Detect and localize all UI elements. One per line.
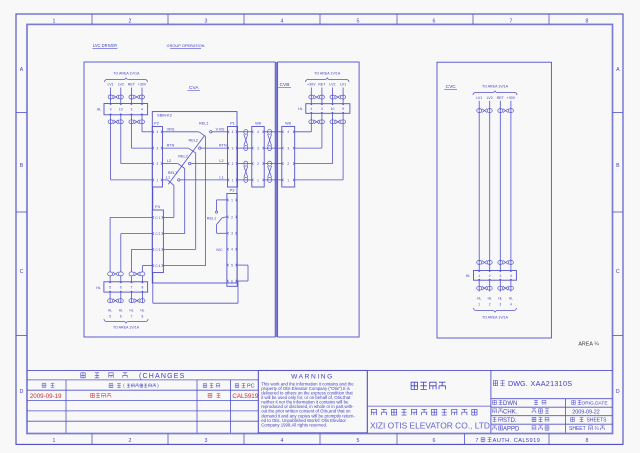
svg-text:HL: HL [119,309,123,313]
svg-text:RTN: RTN [219,144,227,148]
svg-text:HL: HL [97,107,102,111]
label CVA [188,85,201,91]
connector P3 [227,194,237,287]
svg-text:A: A [616,67,620,73]
svg-text:5: 5 [231,264,233,268]
relay contact REL2 (L2) [178,155,191,169]
svg-text:2009-09-19: 2009-09-19 [30,393,62,400]
svg-text:ORIG.DATE: ORIG.DATE [582,401,608,407]
svg-text:3: 3 [130,108,132,112]
svg-text:LV1: LV1 [476,96,482,100]
svg-text:GROUP OPERATION: GROUP OPERATION [167,43,205,48]
svg-text:2: 2 [287,162,289,166]
crossover vertical to P4.C3 [195,153,197,250]
wires P1 to W8 connector [238,131,252,133]
svg-text:1: 1 [478,274,480,278]
changes table grid [27,370,258,432]
frame row letters right [616,67,620,395]
wall between CVA and CVB [275,62,277,337]
twisted pair symbol P1-W8 lower [244,161,248,166]
svg-text:Company 1998.All rights reserv: Company 1998.All rights reserved. [261,422,327,427]
svg-text:TO AREA 1V/1A: TO AREA 1V/1A [482,315,509,319]
label GROUP OPERATION [167,43,205,49]
wire P4.C4 to strip pin8 [142,265,152,267]
svg-text:TO AREA 1V/1A: TO AREA 1V/1A [482,85,509,89]
dwg number cell [491,379,613,399]
svg-text:HL: HL [488,297,492,301]
terminal strip HL (CVB) [306,104,350,114]
title block top line [27,369,613,371]
wire LV1 to P2 pin1 [110,126,112,180]
twisted pair symbol at wall upper [268,129,272,134]
svg-text:8: 8 [586,438,589,444]
svg-text:4: 4 [232,130,234,134]
wire contact to P1.4 VRS [212,131,228,133]
svg-text:7: 7 [131,315,133,319]
svg-text:3: 3 [232,147,234,151]
svg-text:1: 1 [287,178,289,182]
svg-text:A: A [20,67,24,73]
svg-text:4: 4 [281,18,284,24]
svg-text:3: 3 [205,18,208,24]
svg-text:1: 1 [53,18,56,24]
svg-text:REL1: REL1 [199,122,209,126]
svg-text:P1: P1 [230,122,235,126]
svg-text:P4: P4 [155,205,160,209]
svg-text:8: 8 [141,285,143,289]
svg-text:VRS: VRS [167,127,175,131]
svg-text:2: 2 [489,274,491,278]
terminal labels HL5-HL8 [108,309,145,319]
svg-text:C 1: C 1 [155,216,160,220]
change record person [208,393,212,397]
brace (CVB top) [306,78,350,83]
svg-text:TO AREA 1V/1A: TO AREA 1V/1A [113,72,140,76]
svg-text:LV1: LV1 [340,83,346,87]
connector P2 [152,127,162,188]
svg-text:8: 8 [142,315,144,319]
svg-text:W8: W8 [255,122,261,126]
svg-text:1: 1 [53,438,56,444]
svg-text:CVB: CVB [280,82,290,88]
svg-text:RET: RET [318,83,326,87]
terminal labels HL1-HL4 [477,297,513,307]
crossover vertical to P4.C2 [184,169,186,234]
svg-text:AREA ¼: AREA ¼ [578,342,599,348]
svg-text:LV2: LV2 [329,83,335,87]
wire strip to W8.4 (CVB) [310,124,312,132]
svg-text:RET: RET [128,83,136,87]
twisted pair symbols above strip (CVC) [477,260,482,264]
brace (CVC top) [473,91,517,96]
svg-text:REL2: REL2 [178,155,188,159]
changes header content [109,383,159,388]
changes header date [42,383,46,387]
svg-text:3: 3 [499,274,501,278]
svg-text:DWG.: DWG. [508,379,528,388]
wire strip to W8.3 (CVB) [321,124,323,148]
title block vertical dividers [366,370,368,432]
svg-text:AUTH. CAL5919: AUTH. CAL5919 [493,438,541,444]
terminal strip HL (CVC) [474,271,517,281]
svg-text:4: 4 [141,108,143,112]
title row checked by [493,409,549,416]
wire P2 shell to P4 shell [152,187,154,210]
changes header person [203,384,207,388]
wire +30V to P2 pin4 [141,126,143,132]
wire contact to P1.1 L1 [180,179,228,181]
svg-text:C 2: C 2 [155,232,160,236]
wire P2.1 L1 to contact [163,179,168,181]
frame row ticks left [16,113,27,336]
svg-text:5: 5 [357,18,360,24]
jumper wire P3.5 to P3.6 [237,264,248,266]
wires CVA top terminals [110,88,112,104]
crossover vertical to P4.C1 [173,185,175,217]
brace (CVC bottom) [474,308,517,313]
svg-text:3: 3 [321,107,323,111]
svg-text:(CHANGES: (CHANGES [139,373,186,380]
svg-text:9: 9 [342,107,344,111]
svg-text:1: 1 [232,178,234,182]
wire P4.C2 to strip pin6 [121,233,153,235]
wires CVB top terminals [310,88,312,104]
wires below strip (CVA top) [110,115,112,126]
changes table title [81,373,186,380]
brace (CVA top) [105,78,148,83]
svg-text:6: 6 [433,18,436,24]
svg-text:3: 3 [231,232,233,236]
svg-text:TO AREA 1V/1A: TO AREA 1V/1A [113,326,140,330]
svg-text:CHK.: CHK. [503,409,518,415]
svg-text:+30V: +30V [138,83,147,87]
wire RET to P2 pin3 [130,126,132,148]
svg-text:4: 4 [510,303,512,307]
auth cell [481,438,540,444]
wire stubs below strip (CVC) [478,280,480,291]
svg-text:HL: HL [498,297,502,301]
svg-text:2: 2 [157,162,159,166]
connector P1 [228,127,238,188]
svg-text:SHEETS: SHEETS [587,418,608,424]
warning text [261,381,355,427]
wire contact to P1.3 RTN [201,147,228,149]
wire stubs into bottom strip (CVA) [109,276,111,282]
title row approved [493,426,549,433]
svg-text:CAL5919: CAL5919 [232,393,258,400]
svg-text:9: 9 [110,108,112,112]
svg-text:6: 6 [120,315,122,319]
svg-text:+30V: +30V [507,96,516,100]
twisted pair symbols above strip (CVB) [309,95,314,99]
svg-text:SBM-K2: SBM-K2 [157,113,173,118]
title row sheets [571,417,608,423]
svg-text:+30V: +30V [307,83,316,87]
svg-text:W8: W8 [285,122,291,126]
svg-text:4: 4 [157,130,159,134]
title small rows grid [491,407,613,424]
wires below strip (CVB) [310,113,312,124]
company cell divider [367,405,491,407]
twisted pair symbol at wall lower [268,161,272,166]
twisted pair symbols below strip (CVB) [309,120,314,124]
svg-text:STD.: STD. [503,418,517,424]
relay contact REL2 (RTN) [188,138,201,153]
svg-text:LV2: LV2 [118,83,124,87]
svg-text:PC: PC [247,384,255,390]
svg-text:P2: P2 [154,122,159,126]
twisted pair symbols above strip (CVA bottom) [108,272,113,276]
svg-text:2: 2 [129,18,132,24]
svg-text:4: 4 [281,438,284,444]
svg-text:C 4: C 4 [155,264,160,268]
relay contact REL1 (P3) [207,211,227,225]
wire P3.3 to REL1 pivot [217,232,227,234]
svg-text:CVA: CVA [189,85,199,91]
wire P4.C3 to strip pin7 [132,248,153,250]
svg-text:XIZI OTIS ELEVATOR CO., LTD: XIZI OTIS ELEVATOR CO., LTD [370,421,490,431]
svg-text:HL: HL [96,286,101,290]
twisted pair symbol P1-W8 upper [244,129,248,134]
box CVB controller [278,62,360,337]
svg-text:1: 1 [257,178,259,182]
label CVC [444,84,457,90]
svg-text:3: 3 [499,303,501,307]
box CVC controller [437,62,551,338]
wires W8 crossing wall to CVB [264,131,282,133]
wire contact to P1.2 L2 [191,163,228,165]
svg-text:6: 6 [433,438,436,444]
twisted pair symbols below strip (CVA) [108,120,113,124]
terminal strip HL (CVA top) [104,104,148,115]
wire P2.4 VRS to contact [163,131,199,133]
svg-text:C: C [20,269,24,275]
svg-text:HL: HL [108,309,112,313]
svg-text:RTN: RTN [167,144,175,148]
svg-text:HL: HL [509,297,513,301]
svg-text:DWN: DWN [503,401,517,407]
wire P4.C1 to strip pin5 [110,216,152,218]
svg-text:TO AREA 1V/1A: TO AREA 1V/1A [314,72,341,76]
wire stubs below bottom strip (CVA) [109,292,111,303]
svg-text:P3: P3 [230,189,235,193]
svg-text:L1: L1 [219,175,223,179]
svg-text:5: 5 [357,438,360,444]
svg-text:2: 2 [489,303,491,307]
svg-text:3: 3 [157,147,159,151]
change record description [91,393,95,397]
svg-text:REL2: REL2 [189,138,199,142]
brace (CVA bottom) [104,319,148,324]
svg-text:HL: HL [477,297,481,301]
svg-text:RET: RET [497,96,505,100]
svg-text:L2: L2 [219,159,223,163]
twisted pair symbols below strip (CVC) [477,286,482,290]
bottom bus wire [153,302,238,304]
svg-text:WARNING: WARNING [291,374,334,381]
svg-text:2: 2 [231,215,233,219]
svg-text:REL1: REL1 [207,216,217,220]
svg-text:2: 2 [257,162,259,166]
label LVC DRIVER [93,43,118,49]
svg-text:B: B [616,163,620,169]
relay contact REL1 (L1) [168,171,181,185]
svg-text:6: 6 [231,279,233,283]
frame column ticks bottom [92,434,549,445]
twisted pair symbols below strip (CVA bottom) [108,299,113,303]
svg-text:5: 5 [109,315,111,319]
svg-text:6: 6 [120,285,122,289]
svg-text:4: 4 [231,248,233,252]
svg-text:APPD: APPD [503,426,520,432]
changes header PC [235,384,254,390]
svg-text:1: 1 [231,198,233,202]
frame row ticks right [613,113,624,336]
frame column numbers bottom [53,438,589,444]
svg-text:HL: HL [140,309,144,313]
wire strip to W8.2 (CVB) [332,124,334,163]
svg-text:4: 4 [257,130,259,134]
svg-text:4: 4 [510,274,512,278]
svg-text:V RS: V RS [216,127,225,131]
svg-text:LV1: LV1 [108,83,114,87]
svg-text:L2: L2 [167,159,171,163]
svg-text:LV2: LV2 [487,96,493,100]
svg-text:7: 7 [476,438,479,444]
title row sheet number [569,426,604,432]
svg-text:1: 1 [157,178,159,182]
wire bottom bus to P3.6 [237,281,239,303]
box CVA controller [84,62,275,337]
svg-text:10: 10 [331,107,335,111]
svg-text:2: 2 [232,162,234,166]
wire P4 shell to bottom bus [152,273,154,304]
frame column numbers top [53,18,589,24]
svg-text:1: 1 [478,303,480,307]
svg-text:3: 3 [287,147,289,151]
warning box [258,370,367,432]
title row orig date label [572,401,608,407]
svg-text:N/C: N/C [216,248,223,252]
svg-text:CVC: CVC [446,84,457,90]
svg-text:L1: L1 [166,175,170,179]
svg-text:XAA21310S: XAA21310S [531,379,573,388]
title cell drawing name 并联回路 [411,382,417,389]
svg-text:5: 5 [109,285,111,289]
svg-text:SHEET: SHEET [569,426,586,432]
company name chinese [371,409,376,415]
connector W8 (CVA side) [252,127,264,188]
svg-text:C: C [616,269,620,275]
svg-text:HL: HL [298,107,303,111]
label CVB [278,82,291,88]
relay contact REL1 (VRS) [199,122,212,137]
svg-text:HL: HL [466,274,471,278]
svg-text:HL: HL [129,309,133,313]
box SBM-K2 [152,112,237,283]
svg-text:4: 4 [310,107,312,111]
svg-text:2009-09-22: 2009-09-22 [572,409,600,415]
frame column ticks top [92,14,549,24]
wire P3.1 to REL1 contact [217,199,227,201]
wire P2.3 RTN to contact [163,147,189,149]
svg-text:7: 7 [510,18,513,24]
svg-text:8: 8 [586,18,589,24]
mechanical link diagonal of relay contacts [168,135,205,184]
svg-text:D: D [20,389,24,395]
svg-text:3: 3 [205,438,208,444]
connector P4 [152,210,163,273]
svg-text:2: 2 [129,438,132,444]
svg-text:7: 7 [131,285,133,289]
title row drawn by [493,400,546,407]
wires CVC top terminals [478,101,480,271]
twisted pair symbols top (CVC) [477,109,482,113]
wire P2.2 L2 to contact [163,163,178,165]
wire strip to W8.1 (CVB) [342,124,344,180]
connector W8 (CVB side) [282,127,295,188]
crossover vertical to P4.C4 [205,136,207,265]
svg-text:D: D [616,389,620,395]
svg-text:B: B [20,163,24,169]
svg-text:3: 3 [257,147,259,151]
svg-text:10: 10 [119,108,123,112]
svg-text:4: 4 [287,130,289,134]
twisted pair symbols above strip (CVA) [108,95,113,99]
svg-text:LVC DRIVER: LVC DRIVER [93,43,117,48]
wire LV2 to P2 pin2 [120,126,122,164]
svg-text:C 3: C 3 [155,248,160,252]
frame row letters left [20,67,24,395]
title row standards [493,417,549,424]
terminal strip HL (CVA bottom) [104,282,148,292]
